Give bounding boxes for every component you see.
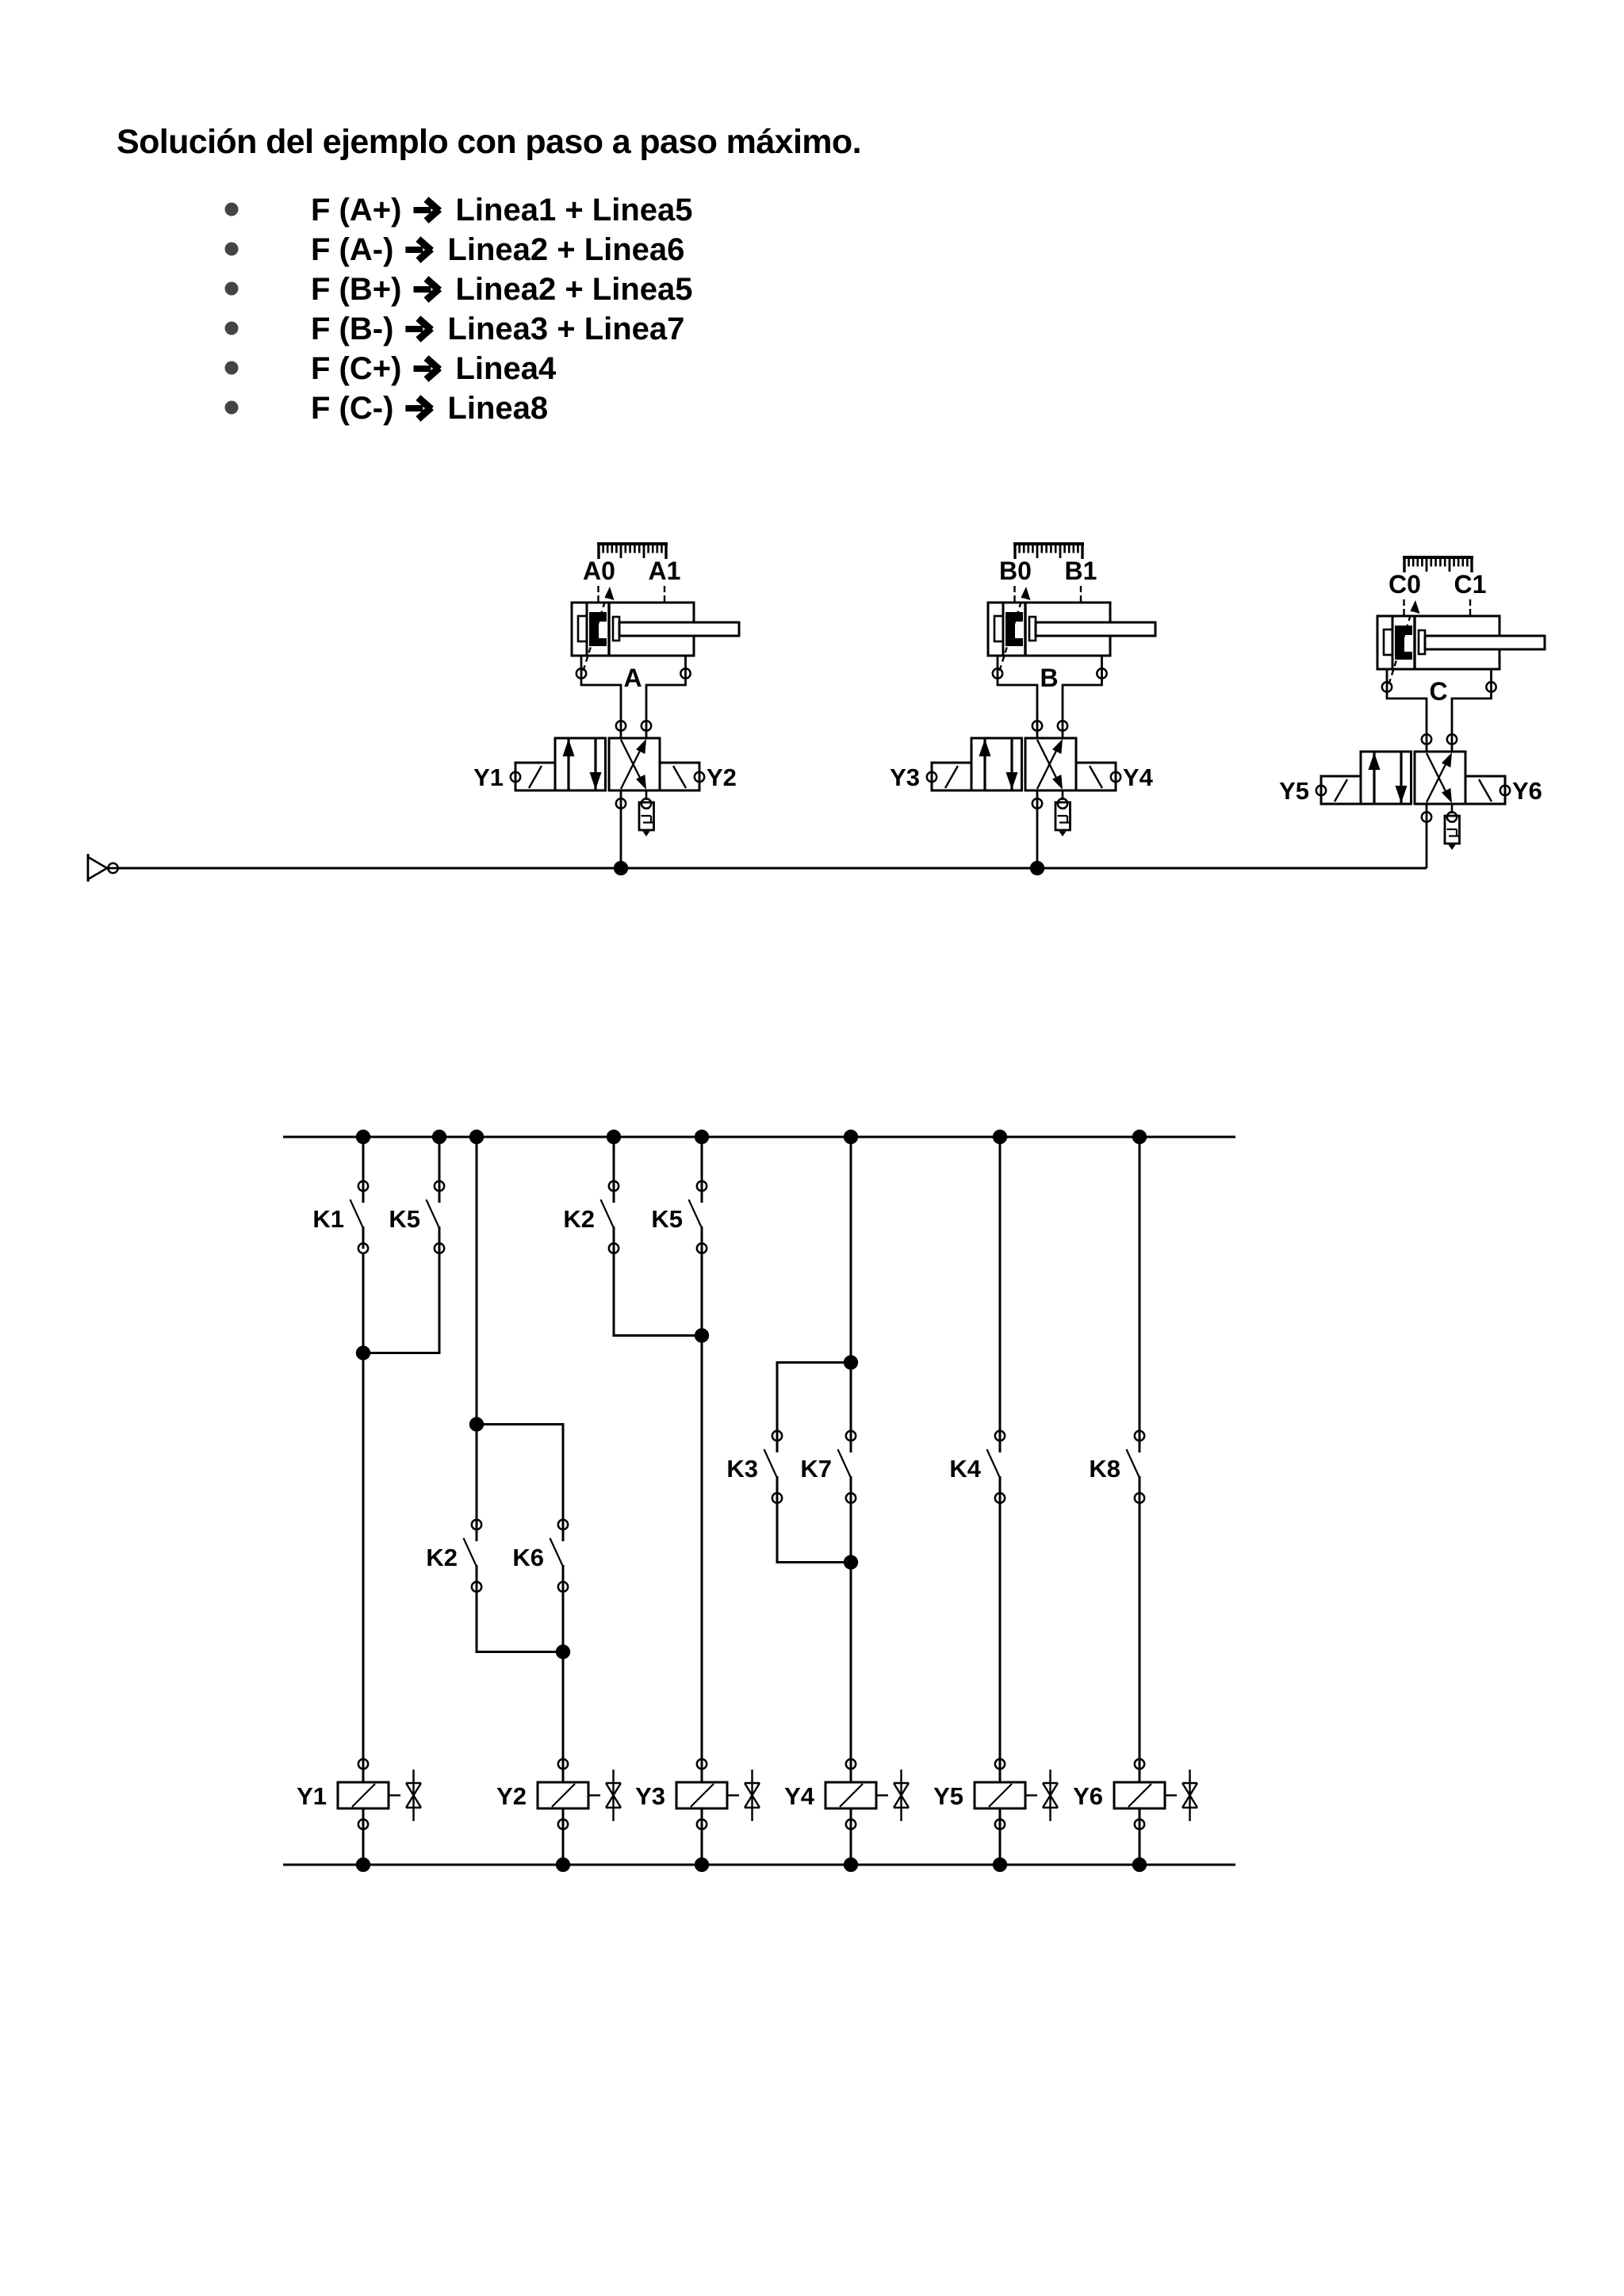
valve top port circle 4 (C) — [1422, 734, 1431, 744]
svg-text:Y3: Y3 — [635, 1782, 665, 1810]
cylinder A piston face — [607, 603, 610, 656]
wire rail to K3/K7 split — [850, 1137, 852, 1436]
coil Y2 bottom pin circle — [558, 1820, 568, 1829]
wire coil Y6 to bottom rail — [1139, 1808, 1141, 1865]
svg-text:F (B+): F (B+) — [311, 272, 401, 307]
junction K3/K7 merge — [844, 1555, 858, 1569]
svg-text:Y6: Y6 — [1512, 777, 1542, 805]
valve V1 cross arrow down — [621, 740, 646, 790]
title text — [117, 123, 861, 161]
cylinder B left port circle — [993, 668, 1002, 678]
valve V1 left box down-flow arrow — [590, 738, 602, 790]
contact label K7 — [800, 1455, 832, 1483]
svg-text:F (A-): F (A-) — [311, 232, 393, 267]
svg-text:Y4: Y4 — [784, 1782, 815, 1810]
contact K7 — [838, 1362, 856, 1503]
svg-text:Y5: Y5 — [933, 1782, 963, 1810]
junction K2/K6 merge — [556, 1644, 570, 1659]
svg-text:K7: K7 — [800, 1455, 832, 1483]
top power rail — [283, 1136, 1235, 1138]
solenoid label Y5 — [1279, 777, 1309, 805]
solenoid pilot Y2 box — [660, 763, 699, 790]
svg-text:Y1: Y1 — [297, 1782, 327, 1810]
cylinder A rear cushion box — [578, 616, 587, 641]
contact label K5 — [651, 1205, 683, 1233]
rail junction col K2' — [607, 1130, 621, 1144]
svg-text:Y1: Y1 — [473, 763, 504, 791]
solenoid pilot Y3 box — [932, 763, 971, 790]
wire coil Y5 to bottom rail — [999, 1808, 1002, 1865]
valve V1 exhaust silencer — [639, 790, 654, 836]
valve V3 cross arrow down — [1427, 753, 1452, 803]
coil Y5 top pin circle — [995, 1759, 1005, 1769]
contact K4 — [987, 1137, 1005, 1503]
coil Y6 — [1114, 1782, 1177, 1808]
wire K4 to coil Y5 — [999, 1502, 1002, 1764]
coil Y5 label — [933, 1782, 963, 1810]
svg-text:K4: K4 — [949, 1455, 981, 1483]
contact K2 — [464, 1424, 482, 1592]
bottom rail junction at Y2 — [556, 1858, 570, 1872]
valve V3 left box up-flow arrow — [1369, 752, 1381, 804]
wire merge to coil Y2 — [562, 1652, 565, 1765]
contact label K4 — [949, 1455, 981, 1483]
rail junction col Y2-branch — [469, 1130, 484, 1144]
svg-text:B: B — [1040, 664, 1058, 692]
supply junction at valve V1 — [614, 861, 628, 875]
wire coil Y3 to bottom rail — [701, 1808, 703, 1865]
pilot port circle Y4 — [1111, 772, 1120, 782]
svg-text:A0: A0 — [583, 557, 615, 585]
valve V2 cross arrow up — [1037, 739, 1063, 789]
coil Y5 bottom pin circle — [995, 1820, 1005, 1829]
rail junction col K5' — [695, 1130, 709, 1144]
svg-text:Linea4: Linea4 — [456, 351, 557, 386]
piston position dashed arrow of cylinder B — [1000, 587, 1031, 671]
svg-text:C0: C0 — [1388, 570, 1421, 599]
coil Y4 valve-link symbol — [894, 1770, 909, 1821]
svg-text:K1: K1 — [312, 1205, 344, 1233]
valve V3 left box down-flow arrow — [1396, 752, 1408, 804]
pilot port circle Y5 — [1316, 786, 1326, 795]
svg-text:A1: A1 — [649, 557, 681, 585]
junction K3/K7 split — [844, 1355, 858, 1369]
svg-text:Linea8: Linea8 — [447, 391, 548, 426]
contact label K2 — [426, 1544, 458, 1571]
coil Y4 — [825, 1782, 888, 1808]
wire to coil Y1 — [362, 1759, 365, 1782]
svg-text:Linea1 + Linea5: Linea1 + Linea5 — [456, 193, 693, 228]
bullet line 2: F (A-) -> Linea2 + Linea6 — [225, 232, 685, 267]
coil Y2 label — [496, 1782, 527, 1810]
coil Y2 top pin circle — [558, 1759, 568, 1769]
svg-text:C: C — [1429, 677, 1447, 706]
cylinder C rear cushion box — [1384, 629, 1392, 655]
sensor position mark C1 — [1469, 599, 1471, 615]
cylinder C left port circle — [1382, 682, 1392, 691]
coil Y1 bottom pin circle — [358, 1820, 368, 1829]
sensor position mark B1 — [1080, 586, 1082, 602]
contact label K5 — [389, 1205, 420, 1233]
cylinder A right port circle — [680, 668, 690, 678]
cylinder C piston magnet — [1395, 626, 1412, 660]
cylinder A left port wire — [581, 656, 621, 738]
sensor position mark B0 — [1013, 586, 1015, 602]
coil Y3 label — [635, 1782, 665, 1810]
node label B — [1040, 664, 1058, 692]
svg-text:K5: K5 — [651, 1205, 683, 1233]
wire coil Y2 to bottom rail — [562, 1808, 565, 1865]
cylinder C right port wire — [1452, 669, 1492, 752]
coil Y6 label — [1073, 1782, 1103, 1810]
pilot port circle Y2 — [695, 772, 704, 782]
svg-text:C1: C1 — [1454, 570, 1487, 599]
wire coil Y1 to bottom rail — [362, 1808, 365, 1865]
coil Y3 bottom pin circle — [697, 1820, 707, 1829]
solenoid label Y2 — [707, 763, 737, 791]
contact K5 — [689, 1137, 707, 1253]
wire coil Y4 to bottom rail — [850, 1808, 852, 1865]
supply air line — [117, 867, 1427, 870]
valve V3 left position box — [1361, 752, 1411, 804]
valve V3 exhaust silencer — [1445, 804, 1460, 850]
wire to coil Y2 — [562, 1759, 565, 1782]
solenoid pilot Y4 box — [1076, 763, 1116, 790]
cylinder B piston face — [1024, 603, 1026, 656]
cylinder A body — [572, 603, 694, 656]
svg-text:F (C+): F (C+) — [311, 351, 401, 386]
solenoid label Y3 — [890, 763, 920, 791]
cylinder B left port wire — [998, 656, 1037, 738]
solenoid pilot Y1 box — [515, 763, 555, 790]
sensor label A1 — [649, 557, 681, 585]
piston position dashed arrow of cylinder A — [584, 587, 615, 671]
coil Y3 top pin circle — [697, 1759, 707, 1769]
rail junction col K1 — [356, 1130, 370, 1144]
wire to coil Y5 — [999, 1759, 1002, 1782]
valve top port circle 4 (B) — [1032, 721, 1042, 730]
bottom rail junction at Y3 — [695, 1858, 709, 1872]
valve top port circle 2 (C) — [1447, 734, 1457, 744]
cylinder B rear cushion box — [994, 616, 1003, 641]
contact K6 — [550, 1424, 569, 1652]
svg-text:Y5: Y5 — [1279, 777, 1309, 805]
cylinder B right port circle — [1097, 668, 1106, 678]
wire K5' to coil Y3 — [701, 1253, 703, 1764]
wire K5 down and left to K1 branch — [363, 1253, 439, 1353]
svg-text:K2: K2 — [426, 1544, 458, 1571]
coil Y4 bottom pin circle — [846, 1820, 856, 1829]
sensor label A0 — [583, 557, 615, 585]
contact label K6 — [512, 1544, 544, 1571]
bottom rail junction at Y1 — [356, 1858, 370, 1872]
junction K1/K5 parallel — [356, 1345, 370, 1360]
valve V3 pressure port wire — [1426, 804, 1428, 868]
valve V1 cross arrow up — [621, 739, 646, 789]
coil Y3 valve-link symbol — [745, 1770, 760, 1821]
sensor label B0 — [999, 557, 1032, 585]
valve V3 cross arrow up — [1427, 752, 1452, 802]
sensor label B1 — [1065, 557, 1097, 585]
bullet line 5: F (C+) -> Linea4 — [225, 351, 557, 386]
pilot port circle Y6 — [1500, 786, 1510, 795]
coil Y3 — [676, 1782, 739, 1808]
solenoid label Y4 — [1123, 763, 1154, 791]
valve top port circle 4 (A) — [616, 721, 626, 730]
contact label K3 — [726, 1455, 758, 1483]
cylinder C right port circle — [1486, 682, 1496, 691]
bottom rail junction at Y5 — [993, 1858, 1007, 1872]
wire K2 down and right to merge — [477, 1590, 563, 1652]
stroke ruler / distance scale of cylinder C — [1403, 557, 1473, 572]
contact K5 — [427, 1137, 445, 1253]
svg-text:Solución del ejemplo con paso: Solución del ejemplo con paso a paso máx… — [117, 123, 861, 161]
cylinder C body — [1377, 616, 1500, 669]
cylinder C rear cap line — [1392, 616, 1394, 669]
svg-text:F (A+): F (A+) — [311, 193, 401, 228]
wire K2' down and right to K5' branch — [614, 1253, 702, 1336]
svg-text:Y2: Y2 — [707, 763, 737, 791]
solenoid label Y6 — [1512, 777, 1542, 805]
valve V3 pressure port circle — [1422, 812, 1431, 821]
coil Y5 — [975, 1782, 1037, 1808]
cylinder C rod bearing — [1419, 630, 1425, 654]
stroke ruler / distance scale of cylinder A — [597, 544, 668, 559]
cylinder B right port wire — [1063, 656, 1102, 738]
supply junction at valve V2 — [1030, 861, 1044, 875]
sensor position mark C0 — [1403, 599, 1404, 615]
valve V2 left position box — [971, 738, 1022, 790]
valve V1 right position box — [609, 738, 660, 790]
contact K8 — [1127, 1137, 1145, 1503]
solenoid label Y1 — [473, 763, 504, 791]
svg-text:Y6: Y6 — [1073, 1782, 1103, 1810]
coil Y1 top pin circle — [358, 1759, 368, 1769]
cylinder A left port circle — [576, 668, 586, 678]
sensor position mark A0 — [597, 586, 599, 602]
cylinder C piston rod — [1425, 636, 1545, 649]
svg-text:Y4: Y4 — [1123, 763, 1154, 791]
coil Y5 valve-link symbol — [1043, 1770, 1058, 1821]
junction K2'/K5' merge — [695, 1328, 709, 1342]
svg-text:K3: K3 — [726, 1455, 758, 1483]
node label A — [623, 664, 642, 692]
valve V1 left position box — [555, 738, 606, 790]
coil Y1 — [338, 1782, 400, 1808]
svg-text:Linea3 + Linea7: Linea3 + Linea7 — [447, 312, 684, 346]
svg-text:Linea2 + Linea6: Linea2 + Linea6 — [447, 232, 684, 267]
svg-text:F (B-): F (B-) — [311, 312, 393, 346]
rail junction col K8 — [1132, 1130, 1147, 1144]
svg-text:K8: K8 — [1089, 1455, 1120, 1483]
svg-text:B1: B1 — [1065, 557, 1097, 585]
valve V1 pressure port circle — [616, 798, 626, 808]
wire to coil Y6 — [1139, 1759, 1141, 1782]
wire to coil Y4 — [850, 1759, 852, 1782]
cylinder B rod bearing — [1029, 617, 1036, 641]
sensor position mark A1 — [664, 586, 665, 602]
coil Y1 label — [297, 1782, 327, 1810]
wire rail to K2/K6 split — [476, 1137, 478, 1425]
svg-text:K2: K2 — [563, 1205, 595, 1233]
stroke ruler / distance scale of cylinder B — [1013, 544, 1084, 559]
rail junction col Y4 — [844, 1130, 858, 1144]
coil Y2 — [538, 1782, 600, 1808]
valve V1 pressure port wire — [620, 790, 622, 868]
rail junction col K4 — [993, 1130, 1007, 1144]
cylinder A rod bearing — [613, 617, 619, 641]
wire K1 to Y1 — [362, 1253, 365, 1764]
junction K2/K6 split — [469, 1417, 484, 1431]
contact K2 — [601, 1137, 619, 1253]
sensor label C1 — [1454, 570, 1487, 599]
svg-text:A: A — [623, 664, 642, 692]
valve V3 right position box — [1415, 752, 1465, 804]
bullet line 1: F (A+) -> Linea1 + Linea5 — [225, 193, 693, 228]
valve V2 cross arrow down — [1037, 740, 1063, 790]
bottom power rail — [283, 1864, 1235, 1866]
pilot port circle Y3 — [927, 772, 936, 782]
svg-text:Linea2 + Linea5: Linea2 + Linea5 — [456, 272, 693, 307]
contact label K2 — [563, 1205, 595, 1233]
cylinder B body — [988, 603, 1110, 656]
coil Y4 label — [784, 1782, 815, 1810]
wire merge to coil Y4 — [850, 1502, 852, 1764]
valve top port circle 2 (B) — [1058, 721, 1067, 730]
cylinder B piston magnet — [1005, 612, 1023, 646]
svg-text:F (C-): F (C-) — [311, 391, 393, 426]
solenoid pilot Y6 box — [1465, 776, 1505, 804]
bullet line 6: F (C-) -> Linea8 — [225, 391, 549, 426]
contact label K8 — [1089, 1455, 1120, 1483]
bullet line 3: F (B+) -> Linea2 + Linea5 — [225, 272, 693, 307]
coil Y1 valve-link symbol — [406, 1770, 421, 1821]
valve V2 pressure port wire — [1036, 790, 1039, 868]
contact label K1 — [312, 1205, 344, 1233]
wire split to K6 top — [477, 1425, 563, 1542]
coil Y6 top pin circle — [1135, 1759, 1144, 1769]
coil Y6 valve-link symbol — [1182, 1770, 1197, 1821]
bottom rail junction at Y4 — [844, 1858, 858, 1872]
solenoid pilot Y5 box — [1321, 776, 1361, 804]
cylinder C left port wire — [1387, 669, 1427, 752]
cylinder A piston rod — [619, 622, 739, 636]
coil Y4 top pin circle — [846, 1759, 856, 1769]
valve top port circle 2 (A) — [642, 721, 651, 730]
pilot port circle Y1 — [511, 772, 520, 782]
svg-text:Y2: Y2 — [496, 1782, 527, 1810]
wire to coil Y3 — [701, 1759, 703, 1782]
cylinder A right port wire — [646, 656, 686, 738]
svg-text:Y3: Y3 — [890, 763, 920, 791]
valve V2 pressure port circle — [1032, 798, 1042, 808]
wire K3 down and right to merge — [777, 1502, 851, 1563]
valve V2 right position box — [1025, 738, 1076, 790]
cylinder A piston magnet — [589, 612, 607, 646]
coil Y2 valve-link symbol — [606, 1770, 621, 1821]
svg-text:B0: B0 — [999, 557, 1032, 585]
wire K8 to coil Y6 — [1139, 1502, 1141, 1764]
bottom rail junction at Y6 — [1132, 1858, 1147, 1872]
bullet line 4: F (B-) -> Linea3 + Linea7 — [225, 312, 685, 346]
cylinder B rear cap line — [1002, 603, 1005, 656]
contact K3 — [764, 1362, 783, 1503]
cylinder A rear cap line — [586, 603, 588, 656]
svg-text:K5: K5 — [389, 1205, 420, 1233]
node label C — [1429, 677, 1447, 706]
valve V2 exhaust silencer — [1055, 790, 1071, 836]
sensor label C0 — [1388, 570, 1421, 599]
compressed air source — [88, 854, 127, 882]
valve V2 left box up-flow arrow — [979, 738, 991, 790]
wire split to K3 top — [777, 1363, 851, 1453]
piston position dashed arrow of cylinder C — [1389, 600, 1420, 684]
rail junction col K5 — [432, 1130, 446, 1144]
cylinder C piston face — [1413, 616, 1415, 669]
cylinder B piston rod — [1036, 622, 1155, 636]
valve V2 left box down-flow arrow — [1006, 738, 1018, 790]
svg-text:K6: K6 — [512, 1544, 544, 1571]
coil Y6 bottom pin circle — [1135, 1820, 1144, 1829]
valve V1 left box up-flow arrow — [563, 738, 575, 790]
contact K1 — [350, 1137, 369, 1253]
